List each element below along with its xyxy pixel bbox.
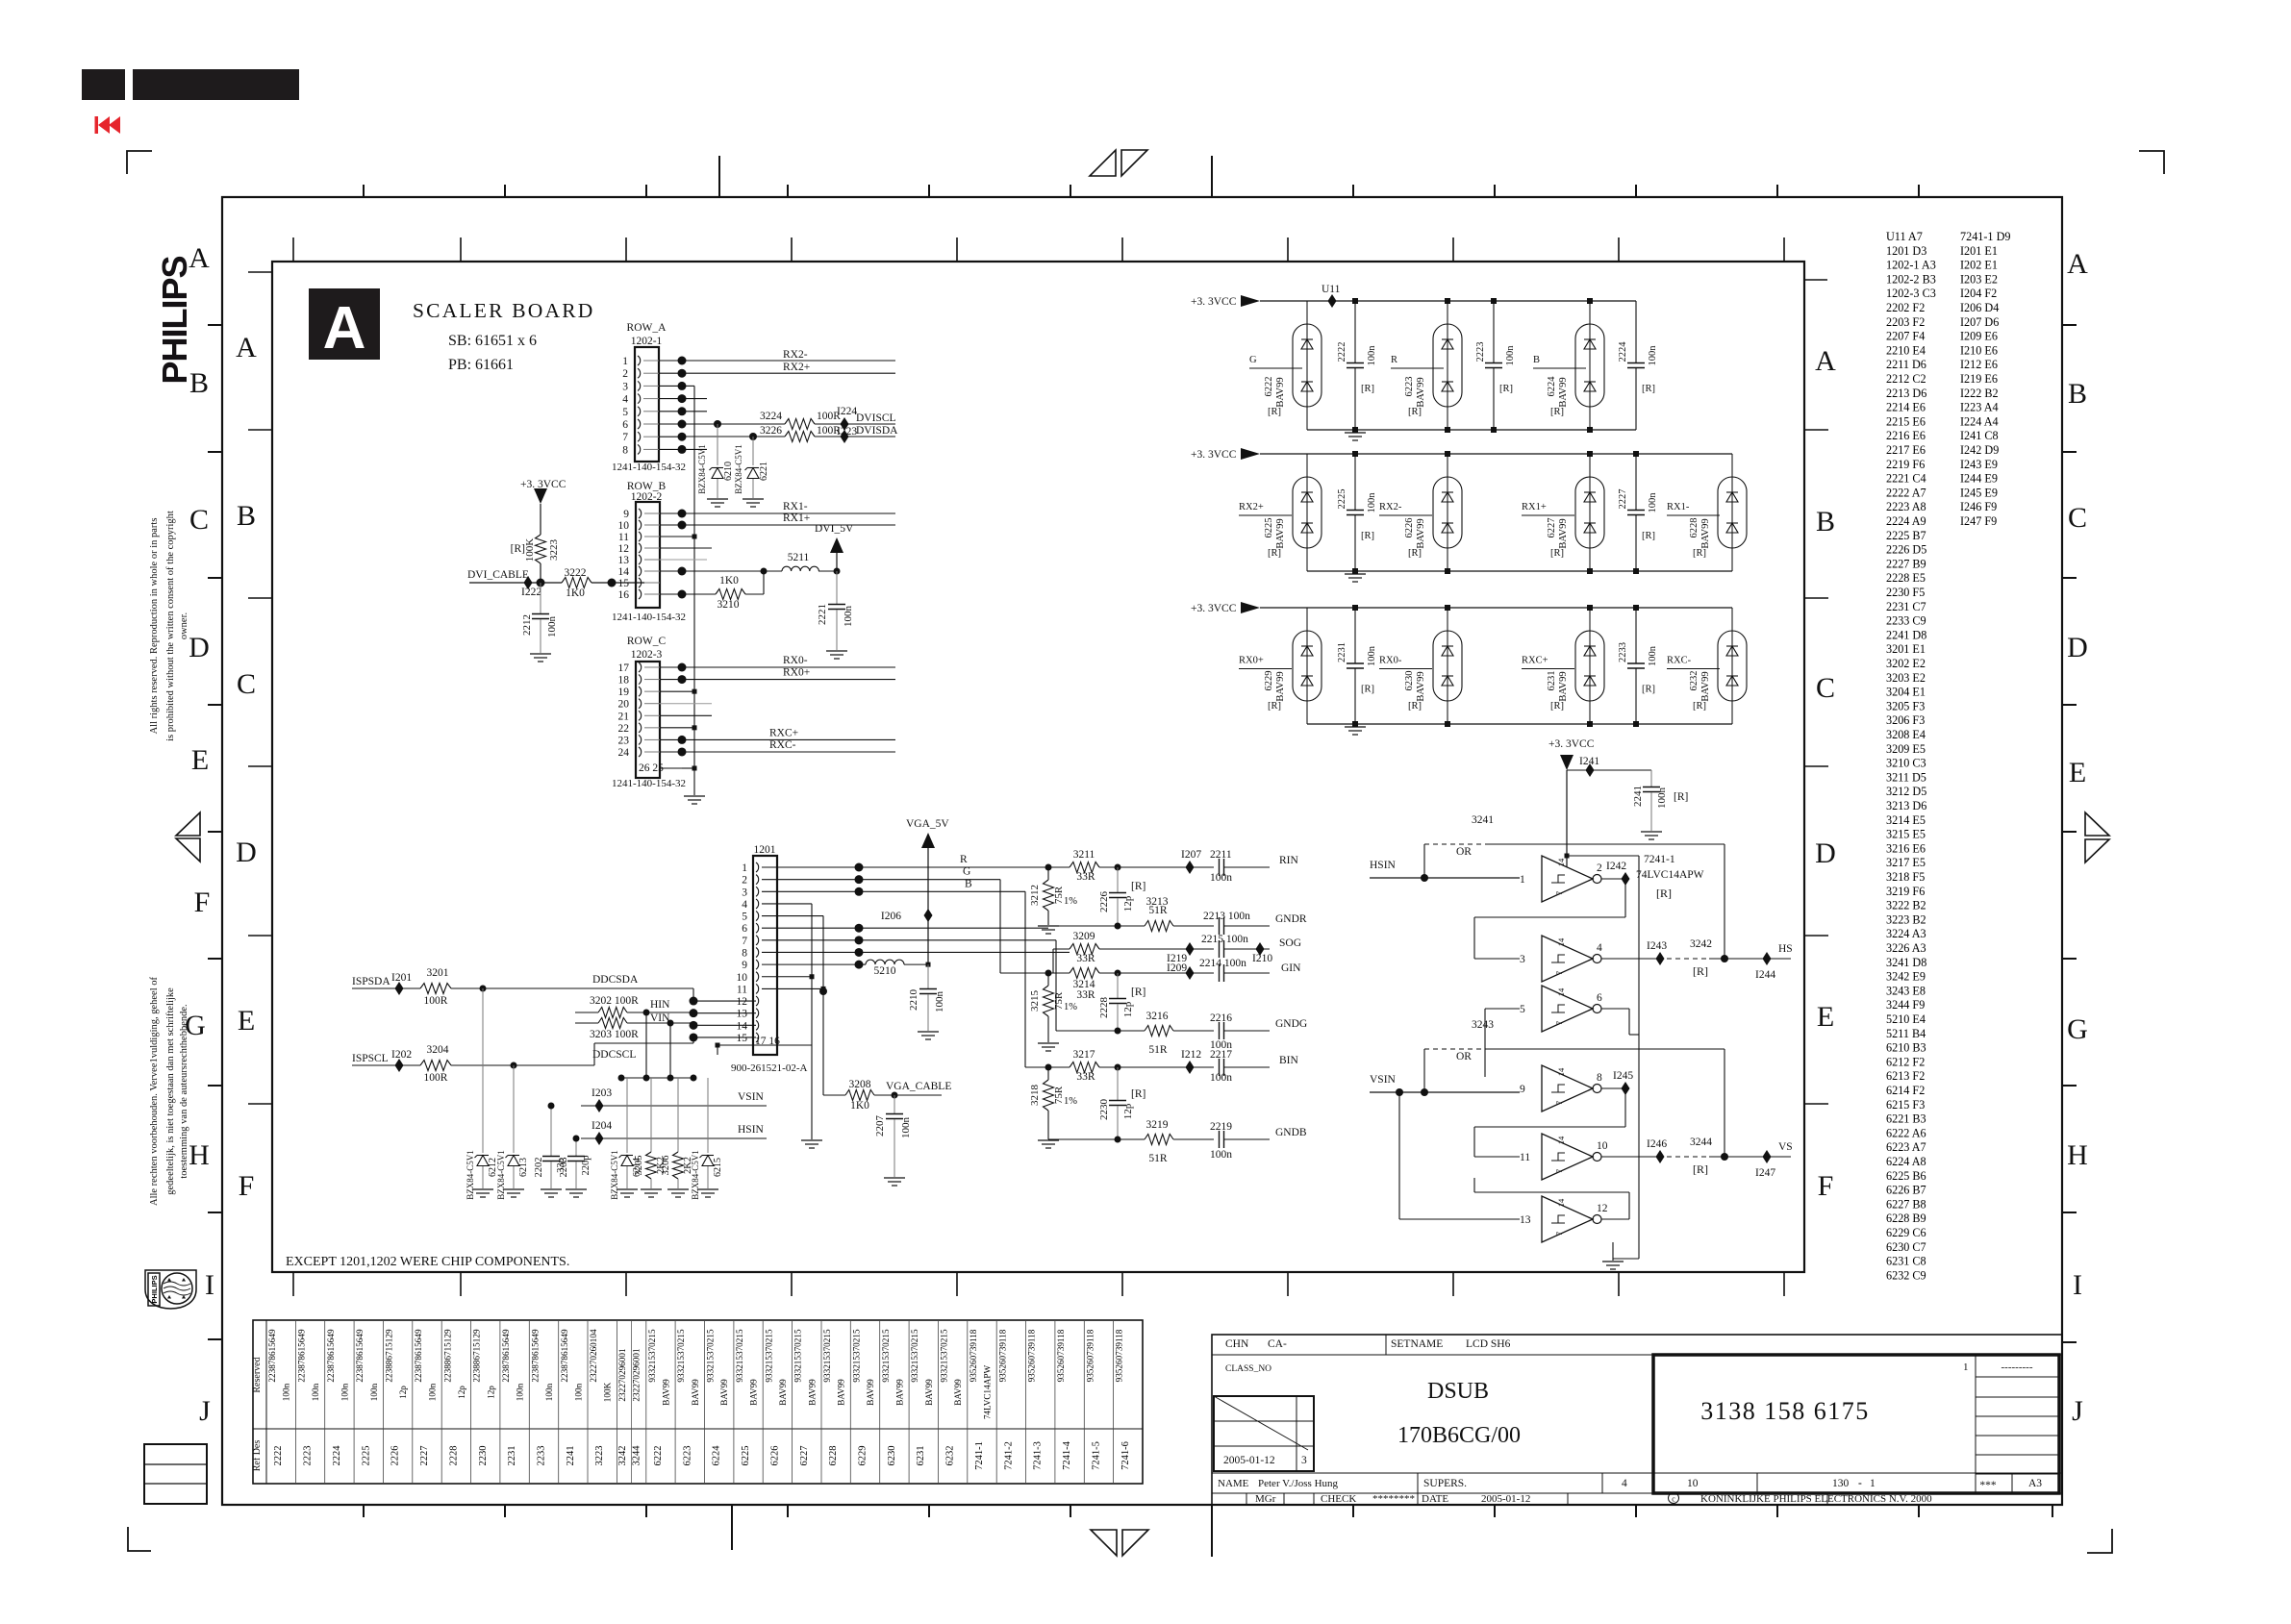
svg-text:223886715129: 223886715129: [442, 1329, 452, 1383]
resistor 3215 75R: [1047, 973, 1049, 986]
svg-text:2227: 2227: [419, 1446, 430, 1466]
svg-text:1: 1: [622, 356, 628, 367]
svg-text:DVI_5V: DVI_5V: [815, 523, 854, 535]
svg-text:1202-1 A3: 1202-1 A3: [1886, 259, 1936, 272]
svg-text:BAV99: BAV99: [1700, 518, 1711, 548]
svg-text:BZX84-C5V1: BZX84-C5V1: [734, 444, 743, 494]
svg-text:BAV99: BAV99: [691, 1379, 700, 1406]
svg-text:CLASS_NO: CLASS_NO: [1225, 1364, 1271, 1374]
svg-text:6228: 6228: [828, 1446, 839, 1466]
parts table: [253, 1320, 1143, 1484]
svg-text:2233: 2233: [1618, 642, 1628, 662]
svg-text:D: D: [1815, 837, 1836, 869]
svg-text:7241-3: 7241-3: [1033, 1441, 1044, 1470]
svg-text:EXCEPT 1201,1202 WERE CHIP CO: EXCEPT 1201,1202 WERE CHIP COMPONENTS.: [286, 1255, 569, 1269]
svg-text:3212 D5: 3212 D5: [1886, 785, 1926, 798]
svg-text:RXC+: RXC+: [1522, 656, 1548, 666]
svg-text:2219: 2219: [1210, 1121, 1232, 1133]
svg-text:223886715129: 223886715129: [472, 1329, 482, 1383]
svg-text:51R: 51R: [1148, 1153, 1168, 1164]
svg-text:933215370215: 933215370215: [851, 1329, 861, 1383]
svg-text:+3. 3VCC: +3. 3VCC: [1191, 603, 1237, 614]
svg-text:I219 E6: I219 E6: [1960, 372, 1998, 386]
svg-text:3209: 3209: [1073, 931, 1095, 942]
svg-text:10: 10: [1597, 1140, 1608, 1152]
black header bar small: [82, 69, 125, 100]
svg-text:3: 3: [622, 381, 628, 392]
svg-text:6214 F2: 6214 F2: [1886, 1084, 1925, 1097]
svg-text:CHECK: CHECK: [1321, 1493, 1356, 1505]
diode pair 6225 BAV99: [1293, 477, 1322, 548]
svg-text:I: I: [2073, 1269, 2082, 1301]
svg-text:5: 5: [622, 407, 628, 418]
svg-text:6232 C9: 6232 C9: [1886, 1268, 1926, 1282]
HSIN wire: [581, 1137, 767, 1139]
svg-text:[R]: [R]: [1674, 791, 1688, 803]
svg-text:7: 7: [742, 936, 747, 947]
svg-text:2202 F2: 2202 F2: [1886, 301, 1925, 314]
capacitor 2212 100n: [540, 583, 541, 613]
node I207: [1186, 861, 1195, 874]
diode clamp row B : lower rail: [1307, 570, 1732, 572]
svg-text:Reserved: Reserved: [252, 1357, 263, 1392]
svg-text:6222 A6: 6222 A6: [1886, 1126, 1926, 1139]
svg-text:223886715129: 223886715129: [385, 1329, 394, 1383]
svg-text:J: J: [2072, 1395, 2083, 1427]
outer frame bottom ticks: [363, 1505, 365, 1517]
svg-text:15: 15: [618, 578, 630, 589]
svg-text:F: F: [239, 1170, 255, 1202]
capacitor 2224 100n: [1635, 301, 1637, 362]
svg-text:I242 D9: I242 D9: [1960, 443, 1999, 457]
svg-text:23: 23: [618, 735, 630, 746]
svg-text:6232: 6232: [945, 1446, 956, 1466]
svg-text:12: 12: [737, 996, 748, 1008]
svg-text:VS: VS: [1778, 1141, 1793, 1153]
corner mark top-right: [2139, 151, 2164, 174]
svg-text:33R: 33R: [1076, 953, 1095, 964]
svg-text:RX1-: RX1-: [783, 501, 808, 512]
svg-text:c: c: [1672, 1495, 1675, 1504]
svg-text:B: B: [965, 878, 972, 889]
wire RX0+: [682, 679, 895, 681]
svg-text:933215370215: 933215370215: [647, 1329, 657, 1383]
svg-text:MGr: MGr: [1255, 1493, 1276, 1505]
svg-text:6225 B6: 6225 B6: [1886, 1169, 1926, 1183]
svg-text:100n: 100n: [1367, 645, 1377, 666]
svg-text:12p: 12p: [486, 1386, 495, 1399]
capacitor 2207 100n: [892, 1092, 898, 1099]
svg-text:VSIN: VSIN: [738, 1091, 765, 1103]
svg-text:G: G: [185, 1010, 206, 1041]
outer frame top ticks: [363, 185, 365, 197]
svg-text:BAV99: BAV99: [924, 1379, 934, 1406]
svg-text:C: C: [189, 504, 209, 536]
svg-text:+3. 3VCC: +3. 3VCC: [1191, 449, 1237, 461]
svg-text:3219 F6: 3219 F6: [1886, 885, 1925, 898]
svg-text:20: 20: [618, 699, 630, 711]
svg-text:3: 3: [742, 887, 747, 898]
svg-text:3241 D8: 3241 D8: [1886, 956, 1926, 969]
svg-text:ROW_A: ROW_A: [627, 322, 667, 334]
capacitor 2222 100n: [1354, 301, 1356, 362]
svg-text:14: 14: [1556, 937, 1566, 946]
svg-text:PHILIPS: PHILIPS: [150, 1275, 159, 1303]
svg-text:BAV99: BAV99: [807, 1379, 817, 1406]
resistor 3205 2K2: [650, 1078, 652, 1152]
svg-text:HSIN: HSIN: [1370, 860, 1397, 871]
svg-text:6229 C6: 6229 C6: [1886, 1226, 1926, 1239]
svg-text:I202: I202: [391, 1049, 412, 1061]
svg-text:100n: 100n: [1210, 872, 1232, 884]
pin4 shield drop: [811, 904, 813, 1045]
svg-text:100n: 100n: [934, 991, 945, 1013]
svg-text:BAV99: BAV99: [1416, 518, 1426, 548]
svg-text:I207: I207: [1181, 849, 1201, 861]
svg-text:10: 10: [618, 520, 630, 532]
signature row: [1246, 1493, 1247, 1505]
wire B: [859, 890, 1025, 892]
resistor 3201 100R: [420, 984, 451, 994]
capacitor 2233 100n: [1635, 608, 1637, 663]
svg-text:A: A: [189, 242, 210, 274]
svg-text:I224: I224: [837, 406, 857, 417]
svg-text:4: 4: [1597, 942, 1602, 954]
svg-text:I207 D6: I207 D6: [1960, 315, 1999, 329]
svg-text:6232: 6232: [1689, 671, 1699, 691]
svg-text:74LVC14APW: 74LVC14APW: [983, 1365, 993, 1420]
svg-text:7241-5: 7241-5: [1092, 1441, 1102, 1470]
GIN row: [1000, 972, 1070, 974]
svg-text:R: R: [960, 854, 968, 865]
svg-text:A: A: [1815, 345, 1836, 377]
svg-text:2216: 2216: [1210, 1012, 1232, 1024]
svg-text:100n: 100n: [428, 1383, 438, 1401]
svg-text:3212: 3212: [1029, 885, 1041, 906]
svg-text:100n: 100n: [1210, 1072, 1232, 1084]
svg-text:I246: I246: [1647, 1138, 1667, 1150]
shield bus wire: [682, 385, 694, 387]
svg-text:3203 100R: 3203 100R: [590, 1029, 639, 1040]
svg-text:12p: 12p: [398, 1386, 408, 1399]
svg-text:3: 3: [1301, 1455, 1307, 1466]
wire RX2+: [682, 372, 895, 374]
svg-text:2210: 2210: [908, 989, 919, 1012]
svg-text:8: 8: [742, 947, 747, 959]
resistor 3208 1K0: [823, 1094, 845, 1096]
svg-text:BZX84-C5V1: BZX84-C5V1: [496, 1150, 506, 1200]
outer frame left ticks: [208, 324, 222, 326]
svg-text:5: 5: [1520, 1004, 1525, 1015]
svg-text:RX2-: RX2-: [1379, 502, 1402, 512]
svg-text:A3: A3: [2028, 1478, 2042, 1489]
R termination network: [1070, 862, 1099, 873]
svg-text:14: 14: [1556, 1136, 1566, 1144]
svg-text:3218 F5: 3218 F5: [1886, 870, 1925, 884]
svg-text:3204 E1: 3204 E1: [1886, 686, 1926, 699]
red rewind icon: [95, 116, 121, 134]
svg-text:4: 4: [622, 394, 628, 406]
svg-text:[R]: [R]: [1131, 881, 1145, 892]
svg-text:1241-140-154-32: 1241-140-154-32: [612, 778, 686, 789]
svg-text:6224: 6224: [1547, 376, 1557, 397]
svg-text:BZX84-C5V1: BZX84-C5V1: [697, 444, 707, 494]
svg-text:5: 5: [742, 912, 747, 923]
svg-text:2: 2: [742, 875, 747, 887]
resistor 3222 1K0: [562, 578, 592, 588]
resistor 3218 75R: [1047, 1067, 1049, 1080]
resistor 3212 75R: [1047, 867, 1049, 880]
GNDB row: [1048, 1138, 1118, 1140]
svg-text:2233: 2233: [537, 1446, 547, 1466]
svg-text:BAV99: BAV99: [1275, 518, 1286, 548]
wire GNDR from pin6: [859, 927, 1048, 929]
svg-text:I204: I204: [592, 1120, 612, 1132]
svg-text:3223 B2: 3223 B2: [1886, 912, 1926, 926]
svg-text:2223: 2223: [303, 1446, 314, 1466]
svg-text:1%: 1%: [1064, 896, 1077, 907]
svg-text:2241: 2241: [566, 1446, 576, 1466]
svg-text:3215 E5: 3215 E5: [1886, 828, 1926, 841]
svg-text:BAV99: BAV99: [894, 1379, 904, 1406]
svg-text:[R]: [R]: [1131, 987, 1145, 998]
svg-text:[R]: [R]: [1656, 887, 1672, 900]
svg-text:2203: 2203: [559, 1158, 569, 1178]
svg-text:3241: 3241: [1472, 814, 1494, 826]
svg-text:6213 F2: 6213 F2: [1886, 1069, 1925, 1083]
svg-text:F: F: [1818, 1170, 1834, 1202]
svg-text:1K0: 1K0: [719, 575, 739, 587]
svg-text:C: C: [2068, 502, 2087, 534]
svg-text:C: C: [237, 668, 256, 700]
zener 6221 BZX84-C5V1: [752, 437, 754, 465]
svg-text:ISPSCL: ISPSCL: [352, 1053, 389, 1064]
svg-text:A: A: [323, 295, 366, 362]
svg-text:6227: 6227: [799, 1446, 810, 1466]
svg-text:[R]: [R]: [1550, 548, 1564, 559]
svg-text:BAV99: BAV99: [778, 1379, 788, 1406]
svg-text:2207 F4: 2207 F4: [1886, 330, 1925, 343]
capacitor 2223 100n: [1493, 301, 1495, 362]
resistor 3204 100R: [420, 1061, 451, 1071]
title block header row: [1212, 1354, 2062, 1356]
resistor 3223 100K: [536, 535, 546, 563]
svg-text:10: 10: [737, 972, 748, 984]
svg-text:2217: 2217: [1210, 1049, 1232, 1061]
svg-text:LCD SH6: LCD SH6: [1466, 1338, 1511, 1350]
resistor 3226 100R: [785, 432, 815, 442]
wire RX0-: [682, 666, 895, 668]
svg-text:100n: 100n: [1367, 492, 1377, 513]
svg-text:3201: 3201: [427, 967, 449, 979]
GNDG row: [1056, 1030, 1118, 1032]
svg-text:3204: 3204: [427, 1044, 449, 1056]
capacitor 2241 100n: [1650, 770, 1652, 787]
svg-text:933215370215: 933215370215: [940, 1329, 949, 1383]
svg-text:3224: 3224: [760, 411, 782, 422]
svg-text:G: G: [963, 866, 970, 878]
svg-text:I203: I203: [592, 1087, 612, 1099]
svg-text:2210 E4: 2210 E4: [1886, 343, 1926, 357]
svg-text:1: 1: [1520, 874, 1525, 886]
svg-text:2227 B9: 2227 B9: [1886, 557, 1926, 570]
corner mark top-left: [127, 151, 152, 174]
svg-text:2224 A9: 2224 A9: [1886, 514, 1926, 528]
capacitor 2203 220p: [575, 1138, 577, 1156]
copyright line: [1669, 1493, 1679, 1504]
svg-text:17: 17: [618, 662, 630, 674]
inner frame left ticks: [248, 429, 272, 431]
inner frame top ticks: [292, 237, 294, 262]
svg-text:I244: I244: [1755, 969, 1775, 981]
svg-text:3201 E1: 3201 E1: [1886, 642, 1926, 656]
inner drawing frame: [272, 262, 1804, 1272]
svg-text:933215370215: 933215370215: [706, 1329, 716, 1383]
svg-text:F: F: [194, 887, 211, 918]
svg-text:6210 B3: 6210 B3: [1886, 1041, 1926, 1055]
gate5 out to VS: [1601, 1156, 1660, 1158]
revision date box: [1214, 1396, 1314, 1471]
gate6 wiring: [1399, 1218, 1520, 1220]
svg-text:1%: 1%: [1064, 1002, 1077, 1012]
svg-text:3244: 3244: [632, 1445, 642, 1466]
svg-text:BAV99: BAV99: [1416, 377, 1426, 407]
svg-text:[R]: [R]: [1499, 384, 1513, 394]
svg-text:3213: 3213: [1146, 896, 1169, 908]
svg-text:[R]: [R]: [1642, 685, 1655, 695]
resistor 3210 1K0: [682, 593, 716, 595]
svg-text:I222 B2: I222 B2: [1960, 387, 1999, 400]
svg-text:100n: 100n: [573, 1383, 583, 1401]
VSIN wire: [581, 1105, 767, 1107]
svg-text:223878615649: 223878615649: [297, 1329, 307, 1383]
outer page frame: [222, 197, 2062, 1505]
svg-text:100n: 100n: [1505, 345, 1516, 366]
svg-text:G: G: [1249, 355, 1257, 365]
svg-text:2223: 2223: [1475, 342, 1486, 362]
svg-text:12p: 12p: [1122, 895, 1134, 912]
svg-text:SOG: SOG: [1279, 937, 1301, 949]
capacitor 2202 33p: [550, 1106, 552, 1156]
svg-text:6230: 6230: [1404, 671, 1415, 691]
svg-text:3217 E5: 3217 E5: [1886, 856, 1926, 869]
svg-text:100n: 100n: [544, 1383, 554, 1401]
svg-text:8: 8: [622, 444, 628, 456]
svg-text:2228: 2228: [448, 1446, 459, 1466]
svg-text:6231 C8: 6231 C8: [1886, 1255, 1926, 1268]
svg-text:2222 A7: 2222 A7: [1886, 486, 1926, 499]
svg-text:H: H: [2067, 1139, 2088, 1171]
diode pair 6232 BAV99: [1718, 631, 1747, 701]
GNDR row: [1048, 925, 1118, 927]
wire DVISDA pin7: [682, 436, 785, 437]
svg-text:3206 F3: 3206 F3: [1886, 713, 1925, 727]
svg-text:E: E: [1817, 1001, 1834, 1033]
svg-text:HIN: HIN: [650, 999, 670, 1011]
svg-text:12p: 12p: [457, 1386, 466, 1399]
black header bar large: [133, 69, 299, 100]
svg-text:BAV99: BAV99: [1558, 671, 1569, 701]
svg-text:[R]: [R]: [1642, 384, 1655, 394]
svg-text:3216 E6: 3216 E6: [1886, 841, 1926, 855]
svg-text:[R]: [R]: [1408, 548, 1422, 559]
wire R: [859, 866, 1070, 868]
svg-text:2212 C2: 2212 C2: [1886, 372, 1926, 386]
svg-text:DVISCL: DVISCL: [856, 412, 896, 424]
svg-text:33R: 33R: [1076, 989, 1095, 1001]
node I224 DVISCL: [841, 417, 849, 431]
svg-text:2005-01-12: 2005-01-12: [1481, 1493, 1530, 1505]
svg-text:170B6CG/00: 170B6CG/00: [1397, 1423, 1521, 1448]
svg-text:I241 C8: I241 C8: [1960, 429, 1999, 442]
svg-text:3242: 3242: [617, 1446, 628, 1466]
svg-text:DSUB: DSUB: [1427, 1379, 1489, 1404]
svg-text:[R]: [R]: [1693, 964, 1708, 978]
svg-text:935260739118: 935260739118: [997, 1329, 1007, 1382]
svg-text:2213 100n: 2213 100n: [1203, 911, 1250, 922]
wire SOG from pin8: [859, 951, 1070, 953]
svg-text:100n: 100n: [843, 606, 854, 628]
part number box: [1653, 1355, 2059, 1493]
svg-text:13: 13: [1520, 1214, 1531, 1226]
svg-text:2223 A8: 2223 A8: [1886, 500, 1926, 513]
svg-text:GNDR: GNDR: [1275, 913, 1307, 925]
svg-text:3224 A3: 3224 A3: [1886, 927, 1926, 940]
gate3 wiring: [1485, 1008, 1520, 1010]
svg-text:3214 E5: 3214 E5: [1886, 813, 1926, 827]
svg-text:2219 F6: 2219 F6: [1886, 458, 1925, 471]
svg-text:6222: 6222: [1264, 377, 1274, 397]
svg-text:6227: 6227: [1547, 518, 1557, 538]
svg-text:6223 A7: 6223 A7: [1886, 1140, 1926, 1154]
capacitor 2228 12p: [1117, 973, 1119, 998]
svg-text:900-261521-02-A: 900-261521-02-A: [731, 1062, 807, 1074]
svg-text:DATE: DATE: [1422, 1493, 1448, 1505]
svg-text:1202-2 B3: 1202-2 B3: [1886, 272, 1936, 286]
svg-text:6228 B9: 6228 B9: [1886, 1212, 1926, 1225]
svg-text:6223: 6223: [682, 1446, 692, 1466]
print registration triangles left margin: [176, 812, 200, 836]
diode pair 6231 BAV99: [1575, 631, 1604, 701]
node I222: [524, 576, 533, 589]
svg-text:3211 D5: 3211 D5: [1886, 770, 1926, 784]
svg-text:CHN: CHN: [1225, 1338, 1249, 1350]
svg-text:933215370215: 933215370215: [676, 1329, 686, 1383]
svg-text:935260739118: 935260739118: [1056, 1329, 1066, 1382]
inductor 5211: [782, 566, 818, 571]
svg-text:7: 7: [1554, 1169, 1564, 1173]
svg-text:KONINKLIJKE PHILIPS ELECTRONIC: KONINKLIJKE PHILIPS ELECTRONICS N.V. 200…: [1700, 1493, 1932, 1505]
svg-text:24: 24: [618, 747, 630, 759]
DDCSCL wire to pin15: [593, 1043, 595, 1065]
svg-text:13: 13: [618, 555, 630, 566]
svg-text:I212 E6: I212 E6: [1960, 358, 1998, 371]
svg-text:B: B: [189, 367, 209, 399]
gate2 out to HS: [1601, 958, 1660, 960]
svg-text:DDCSCL: DDCSCL: [592, 1049, 636, 1061]
svg-text:12p: 12p: [1122, 1103, 1134, 1119]
svg-text:6229: 6229: [1264, 671, 1274, 691]
svg-text:I245 E9: I245 E9: [1960, 486, 1998, 499]
svg-text:SCALER BOARD: SCALER BOARD: [413, 299, 594, 322]
svg-text:[R]: [R]: [1361, 685, 1374, 695]
svg-text:+3. 3VCC: +3. 3VCC: [1548, 738, 1595, 750]
svg-text:3203 E2: 3203 E2: [1886, 671, 1926, 685]
svg-text:223878615649: 223878615649: [414, 1329, 423, 1383]
svg-text:********: ********: [1372, 1493, 1415, 1505]
inverter gate U7241 gate4 pins 9/8: [1542, 1065, 1593, 1112]
svg-text:3218: 3218: [1029, 1085, 1041, 1107]
